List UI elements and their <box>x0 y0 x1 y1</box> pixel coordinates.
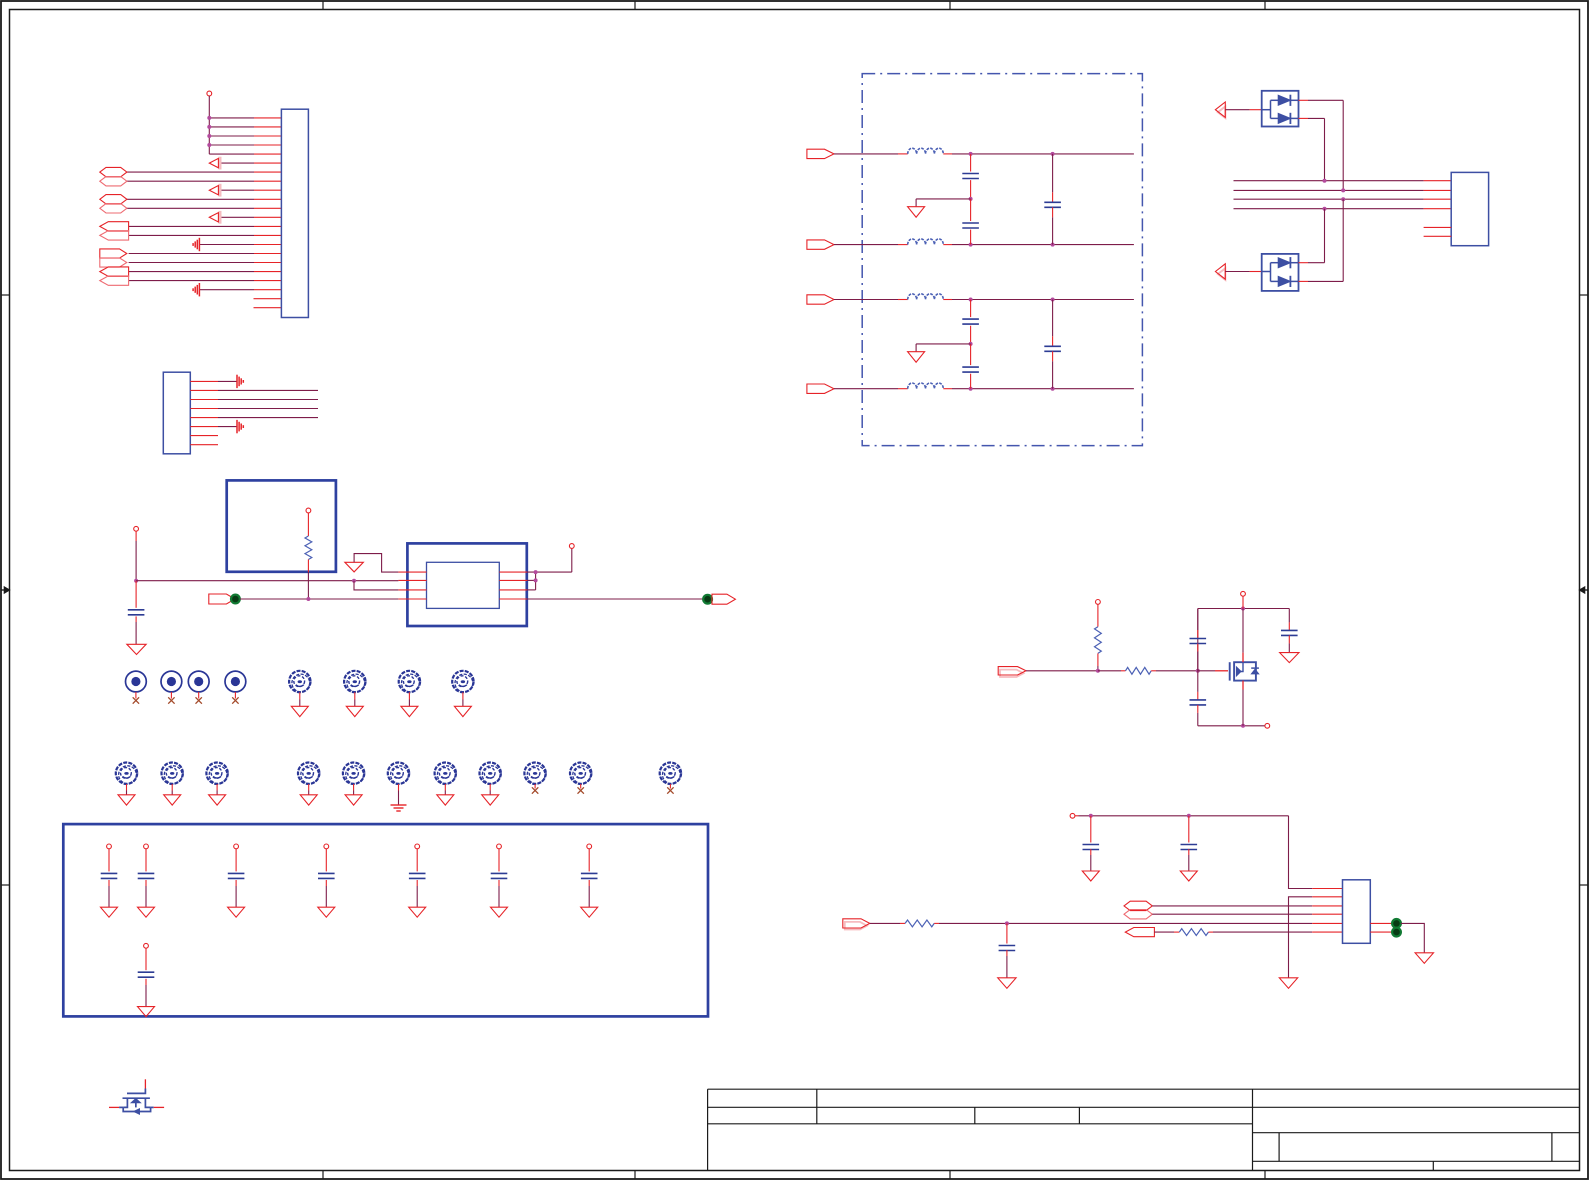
junction F0 b2 <box>1051 243 1055 247</box>
junction source rail <box>1241 724 1245 728</box>
port SCL bidir <box>1124 910 1152 919</box>
ground C13 <box>1082 871 1099 881</box>
mounting hole MH8 <box>298 763 319 784</box>
mounting hole MH2 <box>344 671 365 692</box>
connector J2 <box>163 372 190 454</box>
junction R2 <box>1096 669 1100 673</box>
pin V33 <box>1070 813 1075 818</box>
mounting hole MH9 <box>343 763 364 784</box>
port ESD1 <box>1218 107 1225 119</box>
junction VIN <box>134 579 138 583</box>
capacitor CF5 <box>970 344 972 365</box>
junction rail c13 <box>1089 814 1093 818</box>
wire J1 signal rows <box>127 163 254 290</box>
resistor R2 <box>1097 604 1099 626</box>
resistor R3 <box>1098 670 1121 672</box>
connector J3 <box>1451 172 1488 245</box>
J1 pin stubs <box>254 118 282 308</box>
port LINE1- <box>807 240 834 249</box>
junction rail c14 <box>1187 814 1191 818</box>
junction U1 r1 <box>534 570 538 574</box>
wire AIN net <box>939 922 1312 924</box>
junction R1 bottom <box>306 597 310 601</box>
port INT <box>1125 928 1154 937</box>
port LINE1+ <box>807 149 834 158</box>
power pin VCC <box>207 91 212 96</box>
diode D2b <box>1278 276 1290 286</box>
IC U1 inner <box>427 562 500 608</box>
ground C4 <box>228 907 245 917</box>
wire U1 right rows <box>527 548 572 590</box>
wire power bus <box>208 96 210 154</box>
J2 pin stubs <box>190 381 218 444</box>
ground J1 pin15 <box>198 238 200 251</box>
capacitor C12 <box>1288 609 1290 623</box>
junction U row3 <box>1341 197 1345 201</box>
mounting hole MH4 <box>452 671 473 692</box>
capacitor C14 <box>1188 816 1190 843</box>
capacitor C9 <box>144 943 149 948</box>
port CD in <box>100 258 127 267</box>
U1 pin stubs <box>398 572 527 599</box>
diode D2a <box>1278 258 1290 268</box>
wire bus USB rows <box>1234 181 1452 209</box>
wire L1 out <box>952 153 1134 155</box>
port arrow row11 <box>219 211 222 224</box>
capacitor C1 <box>135 581 137 608</box>
capacitor CF1 <box>970 154 972 172</box>
wire R3 to gate <box>1156 670 1198 672</box>
pin VBAT <box>1241 591 1246 596</box>
inductor L1 <box>908 148 944 154</box>
mounting hole MH14 <box>570 763 591 784</box>
ground C8 <box>581 907 598 917</box>
wire bus out <box>527 598 703 600</box>
port DATA0 bidir <box>100 167 127 176</box>
capacitor C2 <box>107 844 112 849</box>
ground J2 pin6 <box>236 420 238 433</box>
wire VBAT <box>1242 596 1244 608</box>
ground C3 <box>138 907 155 917</box>
junction F0 mid <box>969 197 973 201</box>
module box M1 <box>227 480 336 571</box>
capacitor CF6 <box>1052 300 1054 337</box>
fiducial F1 <box>125 671 146 692</box>
wire D2 verticals <box>1324 209 1326 263</box>
wire SCL <box>1152 913 1312 915</box>
filter shield box <box>862 74 1142 446</box>
wire D1b out <box>1290 117 1298 119</box>
wire L4 out <box>952 388 1134 390</box>
transistor Q1 <box>109 1079 164 1114</box>
port CLK out <box>100 231 129 240</box>
port DATA1 bidir <box>100 177 127 186</box>
fiducial F3 <box>188 671 209 692</box>
netgroup OUT <box>703 595 712 604</box>
wire port LINE2+ to L3 <box>834 299 898 301</box>
inductor L2 <box>908 239 944 245</box>
diode D1a <box>1278 95 1290 105</box>
junction F1 mid <box>969 342 973 346</box>
mounting hole MH12 <box>480 763 501 784</box>
capacitor C5 <box>324 844 329 849</box>
ground C5 <box>318 907 335 917</box>
ground F1 <box>908 352 925 363</box>
J4 pin stubs <box>1312 889 1342 933</box>
mounting hole MH1 <box>289 671 310 692</box>
wire D2a out <box>1290 262 1298 264</box>
pin pullup R2 <box>1096 600 1101 605</box>
netgroup J4a <box>1392 919 1401 928</box>
wire INT net <box>1213 931 1312 933</box>
wire J4 pin2 gnd <box>1289 897 1313 978</box>
port EN out <box>100 276 129 285</box>
wire L3 out <box>952 299 1134 301</box>
wire D2b out <box>1290 280 1298 282</box>
title block <box>708 1089 1580 1170</box>
mounting hole MH11 <box>435 763 456 784</box>
ground C1 <box>127 644 146 654</box>
wire top rail J4 <box>1075 815 1079 817</box>
capacitor C3 <box>144 844 149 849</box>
capacitor C4 <box>234 844 239 849</box>
capacitor C8 <box>587 844 592 849</box>
wire F1 gnd branch <box>916 343 971 345</box>
wire step row3 <box>354 581 398 590</box>
pin VIN <box>134 526 139 531</box>
junction U row4 <box>1323 207 1327 211</box>
mounting hole MH10 <box>388 763 409 784</box>
ground flag U1 <box>345 562 364 572</box>
connector J1 <box>281 109 308 317</box>
port LINE2+ <box>807 295 834 304</box>
junction AIN <box>1005 921 1009 925</box>
junction gate node <box>1196 669 1200 673</box>
mounting hole MH6 <box>162 763 183 784</box>
ground C12 <box>1280 653 1299 663</box>
junction U row2 <box>1341 188 1345 192</box>
pin VDD R1 <box>306 508 311 513</box>
diode pack D1 <box>1262 91 1299 127</box>
port arrow row8 <box>219 184 222 197</box>
wire J1 power rows <box>209 118 254 154</box>
diode D1b <box>1278 113 1290 123</box>
ground C7 <box>491 907 508 917</box>
port OUT <box>712 594 735 604</box>
wire J2 row6 <box>218 426 237 428</box>
wire SDA <box>1152 905 1312 907</box>
fiducial F4 <box>225 671 246 692</box>
port SDA bidir <box>1124 901 1152 910</box>
ground C14 <box>1180 871 1197 881</box>
inductor L4 <box>908 383 944 389</box>
wire ESD1 <box>1225 109 1249 111</box>
mounting hole MH15 <box>660 763 681 784</box>
transistor Q2 <box>1198 609 1259 726</box>
capacitor C7 <box>497 844 502 849</box>
resistor R4 <box>870 922 900 924</box>
J3 spare pins <box>1424 226 1452 228</box>
IC U1 outer <box>407 543 526 626</box>
wire D1a out <box>1290 99 1298 101</box>
port PWR out <box>100 267 129 276</box>
pin VOUT sense <box>569 544 574 549</box>
junction dots power bus <box>207 116 211 147</box>
junction F0 b1 <box>969 243 973 247</box>
junction drain rail <box>1241 607 1245 611</box>
wire port LINE1- to L2 <box>834 244 898 246</box>
junction F1 b1 <box>969 387 973 391</box>
J4 right stubs <box>1370 922 1392 924</box>
wire J4 shield <box>1401 923 1424 952</box>
wire J2 row1 <box>218 380 237 382</box>
resistor R1 <box>307 513 309 536</box>
capacitor C6 <box>415 844 420 849</box>
ground J4 shield <box>1415 953 1433 964</box>
wire CTRL <box>1026 670 1098 672</box>
port ESD2 <box>1218 268 1225 280</box>
capacitor CF3 <box>1052 154 1054 192</box>
junction F0 a1 <box>969 152 973 156</box>
port CMD out <box>100 222 129 231</box>
port WP in <box>100 249 127 258</box>
mounting hole MH5 <box>116 763 137 784</box>
capacitor CF2 <box>970 199 972 221</box>
port AIN <box>845 922 867 930</box>
wire F0 gnd branch <box>916 198 971 200</box>
mounting hole MH13 <box>524 763 545 784</box>
ground J4 pin2 <box>1279 978 1297 989</box>
junction U1 r2 <box>534 578 538 582</box>
port LINE2- <box>807 384 834 393</box>
mounting hole MH7 <box>206 763 227 784</box>
ground J1 pin20 <box>198 283 200 296</box>
port IN with netgroup <box>209 594 235 604</box>
junction F1 a2 <box>1051 298 1055 302</box>
port arrow row5 <box>219 157 222 170</box>
mounting hole MH3 <box>399 671 420 692</box>
junction U row1 <box>1323 179 1327 183</box>
wire drain rail <box>1197 609 1199 671</box>
wire source rail <box>1198 725 1265 727</box>
wire ESD2 <box>1225 271 1249 273</box>
border centering arrows <box>1 589 10 591</box>
wire bus row2 <box>136 580 398 582</box>
capacitor CF4 <box>970 300 972 318</box>
fiducial F2 <box>161 671 182 692</box>
port DATA2 bidir <box>100 195 127 204</box>
port CTRL <box>1000 670 1024 677</box>
junction F1 b2 <box>1051 387 1055 391</box>
capacitor C15 <box>1006 923 1008 943</box>
wire port LINE1+ to L1 <box>834 153 898 155</box>
wire bus row4 <box>240 598 399 600</box>
junction F1 a1 <box>969 298 973 302</box>
junction F0 a2 <box>1051 152 1055 156</box>
ground C9 <box>138 1007 155 1017</box>
ground J2 pin1 <box>236 375 238 388</box>
ground C15 <box>998 978 1016 989</box>
ground C2 <box>101 907 118 917</box>
wire J2 rows2-5 <box>218 390 318 417</box>
ground C6 <box>409 907 426 917</box>
wire L2 out <box>952 244 1134 246</box>
connector J4 <box>1343 880 1371 944</box>
port DATA3 bidir <box>100 204 127 213</box>
decoupling box <box>63 824 708 1016</box>
capacitor C10 <box>1197 609 1199 631</box>
wire VIN drop <box>135 531 137 541</box>
pin OUT Q2 <box>1265 723 1270 728</box>
junction bus row2 <box>352 579 356 583</box>
wire rail to J4 pin1 <box>1289 816 1313 889</box>
capacitor C13 <box>1090 816 1092 843</box>
wire port LINE2- to L4 <box>834 388 898 390</box>
resistor R5 <box>1154 931 1174 933</box>
diode pack D2 <box>1262 254 1299 291</box>
capacitor C11 <box>1197 671 1199 692</box>
inductor L3 <box>908 294 944 300</box>
ground F0 <box>908 207 925 218</box>
netgroup J4b <box>1392 928 1401 937</box>
